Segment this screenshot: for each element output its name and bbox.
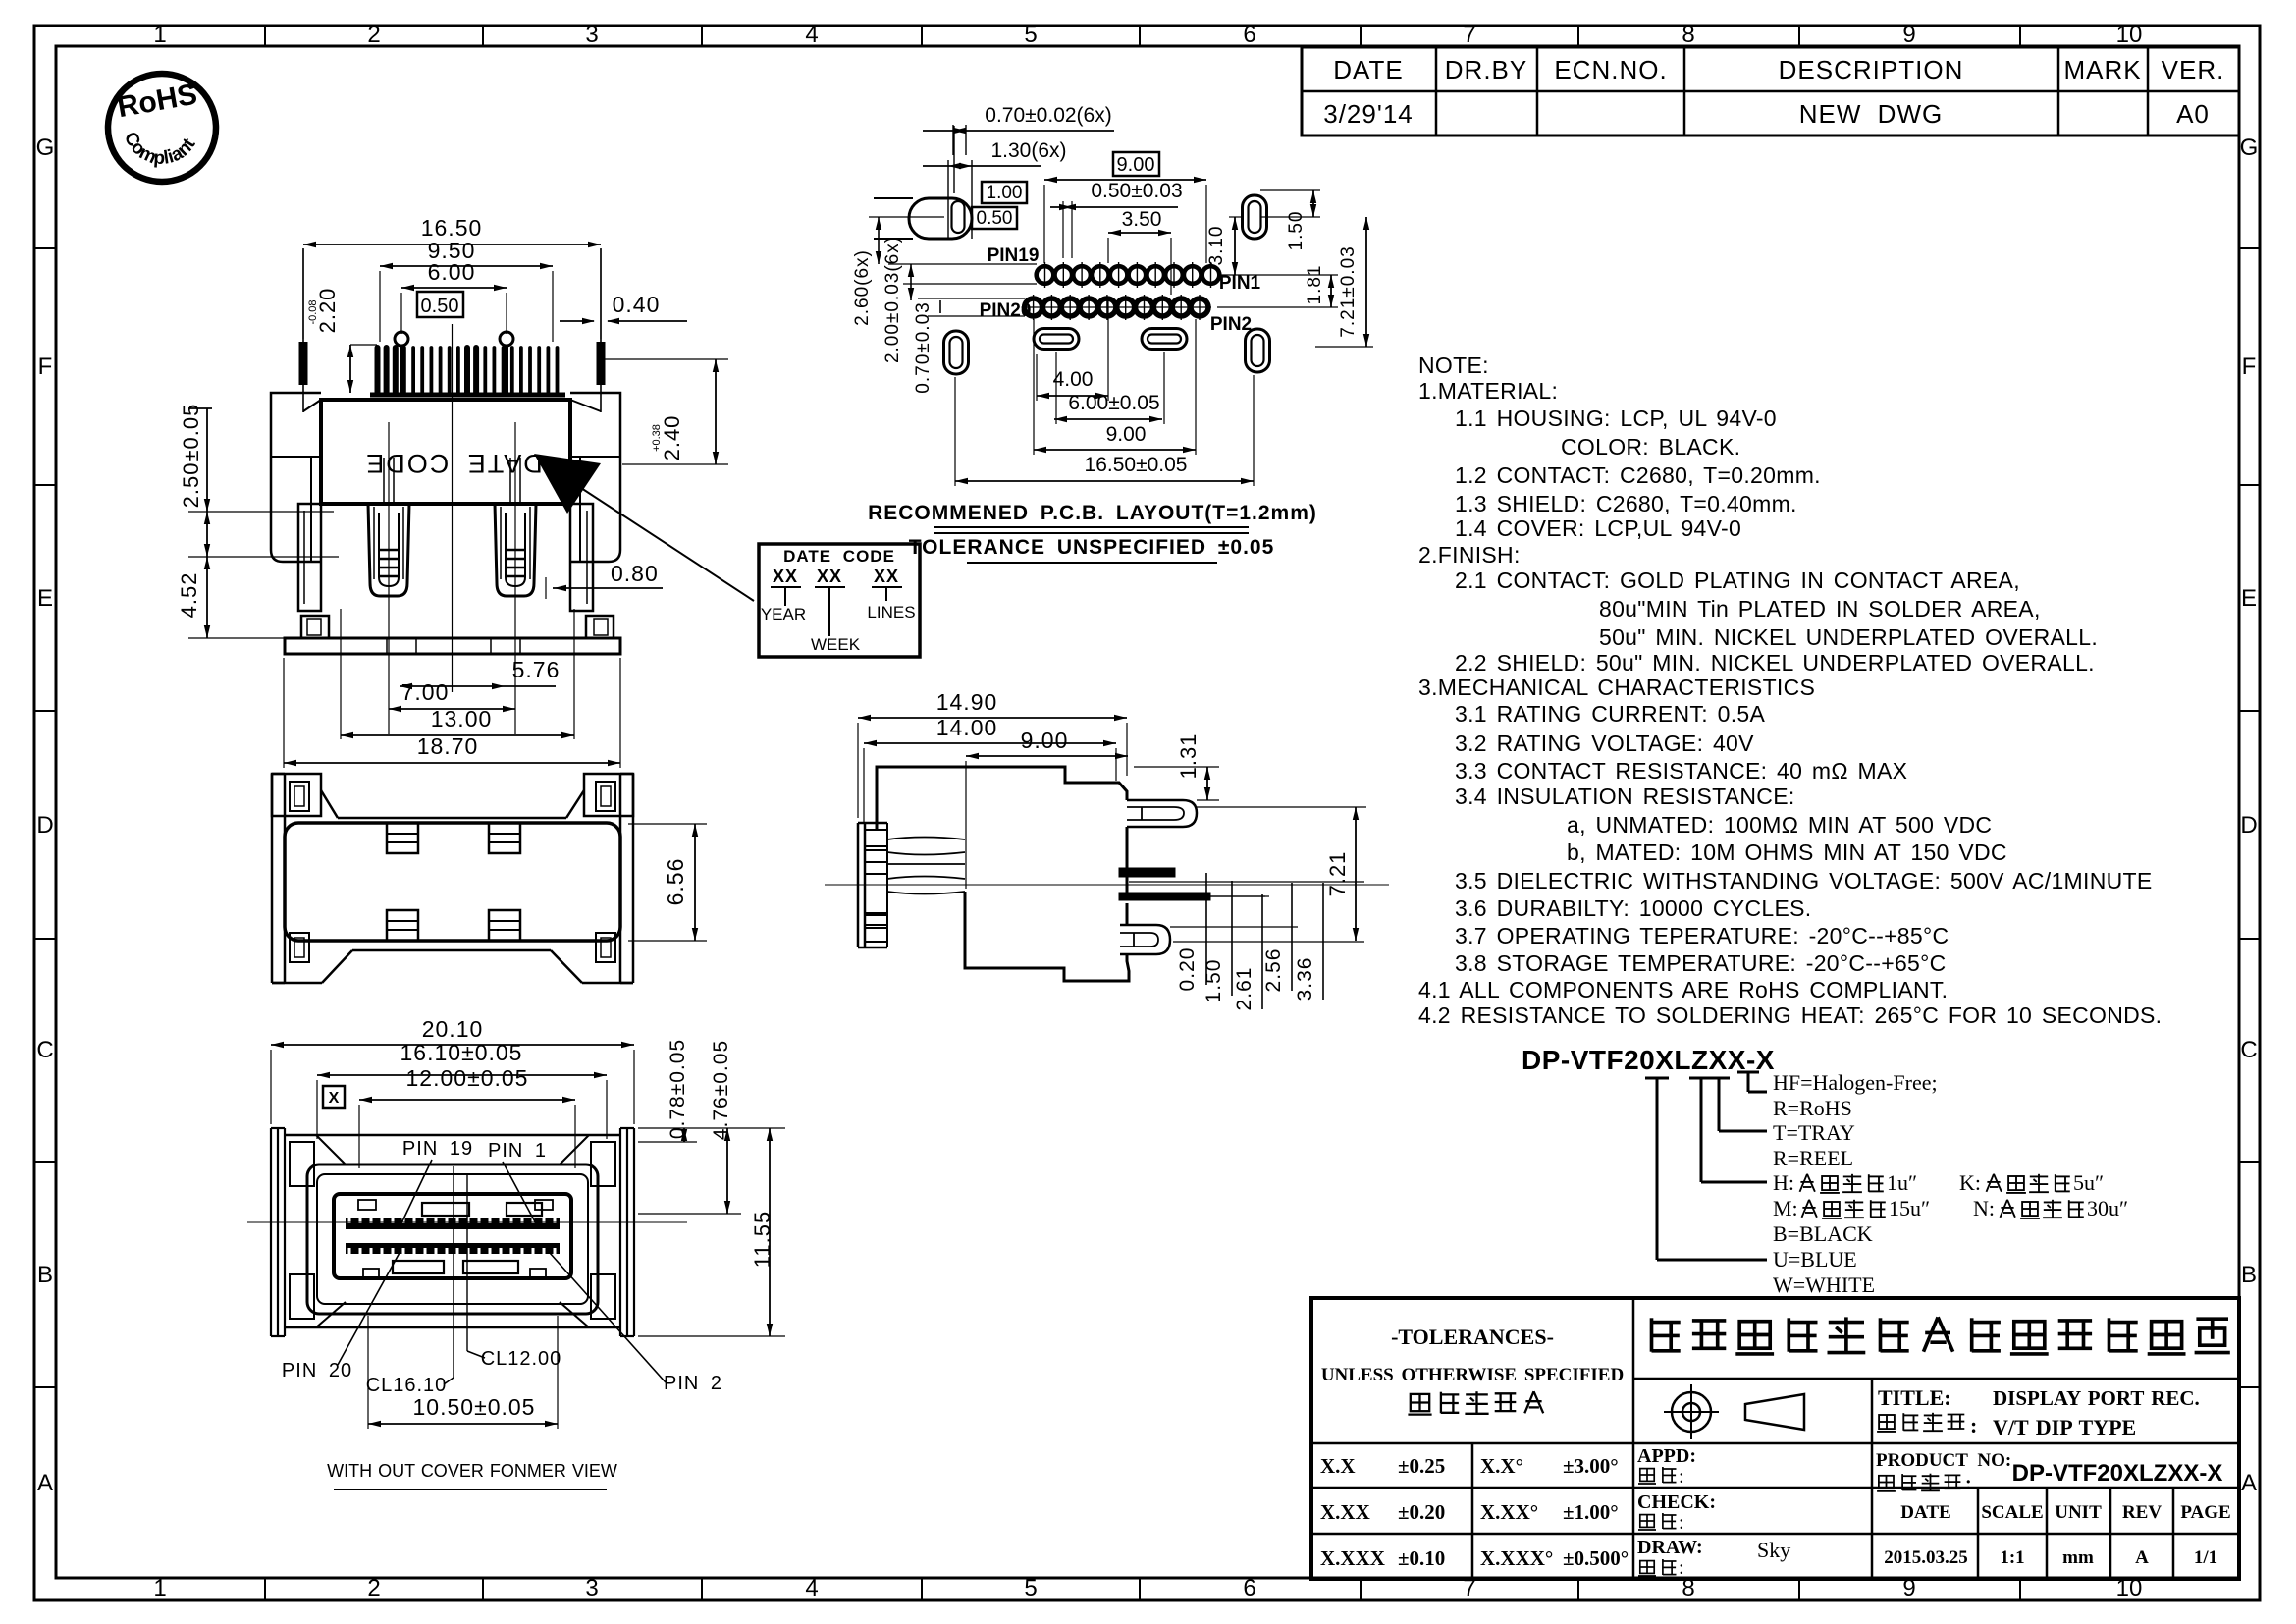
svg-text::: : [1970, 1413, 1978, 1437]
svg-text::: : [1679, 1557, 1685, 1579]
svg-text:ECN.NO.: ECN.NO. [1554, 55, 1667, 84]
svg-text:mm: mm [2062, 1547, 2094, 1568]
svg-text:PRODUCT NO:: PRODUCT NO: [1876, 1450, 2011, 1471]
svg-text:7.21: 7.21 [1325, 851, 1350, 897]
svg-text:F: F [2242, 353, 2257, 380]
svg-text:12.00±0.05: 12.00±0.05 [406, 1065, 529, 1091]
svg-text:7.00: 7.00 [401, 679, 450, 705]
svg-text:UNLESS OTHERWISE SPECIFIED: UNLESS OTHERWISE SPECIFIED [1321, 1365, 1624, 1385]
plating option M/N row [1773, 1196, 2128, 1220]
right wing [570, 393, 620, 562]
svg-text:13.00: 13.00 [431, 706, 493, 731]
svg-text:4.1 ALL COMPONENTS ARE RoH: 4.1 ALL COMPONENTS ARE RoHS COMPLIANT. [1418, 977, 1948, 1002]
svg-text:0.78±0.05: 0.78±0.05 [667, 1039, 689, 1139]
svg-text:PAGE: PAGE [2180, 1502, 2230, 1523]
svg-text:6.00±0.05: 6.00±0.05 [1068, 392, 1159, 414]
mating contacts wavy [887, 838, 965, 840]
svg-text:3/29'14: 3/29'14 [1323, 99, 1414, 129]
svg-text:3.4 INSULATION RESISTANCE:: 3.4 INSULATION RESISTANCE: [1455, 784, 1795, 809]
svg-text:4.00: 4.00 [1053, 368, 1094, 391]
title block [1311, 1298, 2239, 1579]
clip tabs [387, 823, 418, 853]
svg-text:8: 8 [1682, 22, 1694, 48]
svg-text:9.00: 9.00 [1106, 423, 1147, 446]
svg-text:PIN2: PIN2 [1210, 314, 1252, 335]
right foot [586, 616, 614, 638]
svg-text:3.50: 3.50 [1122, 208, 1162, 231]
svg-text:B=BLACK: B=BLACK [1773, 1221, 1873, 1246]
side view [825, 689, 1389, 1010]
svg-text:2.56: 2.56 [1262, 948, 1285, 993]
svg-text:6: 6 [1243, 22, 1255, 48]
svg-text:1.2 CONTACT: C2680, T=0.20m: 1.2 CONTACT: C2680, T=0.20mm. [1455, 462, 1821, 488]
company name (Chinese) [1652, 1317, 2230, 1353]
dim 1.00 boxed [982, 182, 1027, 203]
svg-text:1.31: 1.31 [1176, 733, 1201, 780]
svg-text:A: A [2241, 1470, 2257, 1496]
svg-text:+0.38: +0.38 [651, 424, 663, 452]
svg-text:B: B [37, 1262, 53, 1288]
svg-text:R=RoHS: R=RoHS [1773, 1096, 1852, 1120]
svg-text:W=WHITE: W=WHITE [1773, 1272, 1875, 1297]
svg-text:D: D [36, 812, 53, 839]
svg-text:4: 4 [805, 1575, 818, 1601]
svg-text:2.40: 2.40 [660, 415, 684, 461]
top view shield [272, 774, 707, 983]
svg-text::: : [1965, 1473, 1973, 1494]
svg-text:TITLE:: TITLE: [1878, 1385, 1951, 1410]
recommended PCB layout [852, 104, 1373, 563]
svg-text:C: C [36, 1037, 53, 1063]
svg-text:K:: K: [1959, 1170, 1981, 1195]
svg-text:DR.BY: DR.BY [1445, 55, 1527, 84]
svg-text:CL12.00: CL12.00 [481, 1348, 562, 1370]
svg-text:DP-VTF20XLZXX-X: DP-VTF20XLZXX-X [2012, 1460, 2223, 1487]
svg-text:±0.25: ±0.25 [1398, 1454, 1445, 1478]
svg-text:X.XX°: X.XX° [1480, 1500, 1538, 1524]
svg-text:9: 9 [1902, 22, 1915, 48]
svg-text:X.XXX: X.XXX [1320, 1546, 1385, 1570]
svg-text:A: A [2135, 1547, 2149, 1568]
svg-text:UNIT: UNIT [2055, 1502, 2102, 1523]
svg-text:6.00: 6.00 [428, 259, 476, 285]
svg-text:X.X: X.X [1320, 1454, 1356, 1478]
svg-text:-TOLERANCES-: -TOLERANCES- [1391, 1325, 1554, 1349]
svg-text:±3.00°: ±3.00° [1563, 1454, 1619, 1478]
svg-text:E: E [2241, 585, 2257, 612]
dim 0.50 boxed [417, 292, 463, 317]
svg-text:7: 7 [1463, 22, 1475, 48]
svg-text:1.4 COVER: LCP,UL 94V-0: 1.4 COVER: LCP,UL 94V-0 [1455, 515, 1741, 541]
svg-text:1/1: 1/1 [2194, 1547, 2217, 1568]
svg-text:3: 3 [585, 22, 598, 48]
contact fins [378, 348, 558, 394]
svg-text:6: 6 [1243, 1575, 1255, 1601]
svg-text:3.10: 3.10 [1206, 226, 1227, 266]
CL12.00 line [466, 1174, 468, 1351]
svg-text:2: 2 [367, 1575, 380, 1601]
left wing [271, 393, 321, 562]
side plates [270, 1128, 272, 1336]
tongue [334, 1194, 571, 1278]
svg-text:M:: M: [1773, 1196, 1798, 1220]
svg-text:10: 10 [2116, 22, 2143, 48]
svg-text:COLOR: BLACK.: COLOR: BLACK. [1561, 434, 1740, 460]
projection symbol circle [1664, 1384, 1719, 1439]
svg-text:C: C [2240, 1037, 2257, 1063]
svg-text:B: B [2241, 1262, 2257, 1288]
svg-text:DRAW:: DRAW: [1637, 1537, 1703, 1558]
svg-text:2.1 CONTACT: GOLD PLATING: 2.1 CONTACT: GOLD PLATING IN CONTACT ARE… [1455, 568, 2020, 593]
svg-text:WEEK: WEEK [811, 635, 861, 654]
breakdown tree lines [1645, 1077, 1669, 1080]
svg-text:3.MECHANICAL CHARACTERISTICS: 3.MECHANICAL CHARACTERISTICS [1418, 675, 1815, 700]
svg-text:1.30(6x): 1.30(6x) [990, 139, 1066, 162]
svg-text:G: G [36, 135, 55, 161]
centerline [825, 884, 1389, 886]
svg-text:3.5 DIELECTRIC WITHSTANDING: 3.5 DIELECTRIC WITHSTANDING VOLTAGE: 500… [1455, 868, 2153, 893]
svg-text:5: 5 [1024, 1575, 1037, 1601]
svg-text:F: F [38, 353, 53, 380]
corner tab TR [584, 774, 633, 816]
top DIP leg [1127, 800, 1197, 827]
svg-text:CL16.10: CL16.10 [366, 1375, 448, 1396]
pin holes row 1 [1037, 262, 1220, 288]
svg-text:1.1 HOUSING: LCP, UL 94V-0: 1.1 HOUSING: LCP, UL 94V-0 [1455, 406, 1777, 431]
left foot [301, 616, 329, 638]
svg-text:4.2 RESISTANCE TO SOLDERING: 4.2 RESISTANCE TO SOLDERING HEAT: 265°C … [1418, 1002, 2162, 1028]
shield body [321, 400, 570, 504]
left side plate [271, 774, 274, 983]
svg-text:5.76: 5.76 [512, 657, 561, 682]
projection symbol cone [1745, 1394, 1804, 1430]
CL16.10 line [453, 1166, 454, 1378]
svg-text:YEAR: YEAR [761, 605, 806, 623]
svg-text:SCALE: SCALE [1981, 1502, 2043, 1523]
svg-text:0.50: 0.50 [421, 296, 459, 317]
mini table [1884, 1502, 2230, 1568]
top SMT tail [1119, 868, 1175, 877]
left lower plate [298, 504, 321, 611]
svg-text:30u″: 30u″ [2087, 1196, 2128, 1220]
dim 0.50 boxed [972, 207, 1017, 229]
svg-text:XX: XX [773, 567, 798, 586]
shield main body [285, 823, 620, 941]
svg-text:0.80: 0.80 [611, 561, 659, 586]
svg-text:APPD:: APPD: [1637, 1445, 1696, 1467]
svg-text:H:: H: [1773, 1170, 1794, 1195]
svg-text:DATE: DATE [1333, 55, 1403, 84]
svg-text:HF=Halogen-Free;: HF=Halogen-Free; [1773, 1070, 1938, 1095]
notes text [1418, 352, 2162, 1028]
approval rows [1637, 1445, 1790, 1579]
svg-text:3.7 OPERATING TEPERATURE: -: 3.7 OPERATING TEPERATURE: -20°C--+85°C [1455, 923, 1949, 948]
svg-text:PIN 1: PIN 1 [488, 1140, 547, 1162]
front view connector housing [177, 215, 754, 768]
svg-text:VER.: VER. [2162, 55, 2225, 84]
date code legend box [759, 544, 920, 657]
svg-text:5u″: 5u″ [2073, 1170, 2104, 1195]
svg-text:X: X [329, 1090, 340, 1107]
svg-text:6.56: 6.56 [663, 858, 688, 906]
svg-text:X.XXX°: X.XXX° [1480, 1546, 1553, 1570]
svg-text::: : [1679, 1466, 1685, 1488]
plating option H/K row [1773, 1170, 2104, 1195]
svg-text:LINES: LINES [867, 603, 915, 622]
tolerances header [1321, 1325, 1624, 1415]
cavity outline [307, 1164, 598, 1314]
svg-text:3.6 DURABILTY: 10000 CYCLES: 3.6 DURABILTY: 10000 CYCLES. [1455, 895, 1811, 921]
svg-text:X.XX: X.XX [1320, 1500, 1370, 1524]
svg-text:WITH OUT COVER FONMER VIEW: WITH OUT COVER FONMER VIEW [327, 1461, 617, 1481]
svg-text:MARK: MARK [2063, 55, 2141, 84]
top edge outline [321, 790, 338, 818]
svg-text:±0.500°: ±0.500° [1563, 1546, 1629, 1570]
svg-text:b, MATED: 10M OHMS MIN: b, MATED: 10M OHMS MIN AT 150 VDC [1567, 839, 2007, 865]
tolerance values [1320, 1454, 1629, 1570]
svg-text:0.70±0.02(6x): 0.70±0.02(6x) [985, 104, 1111, 127]
part number breakdown [1522, 1045, 1938, 1260]
bottom edge outline [352, 949, 551, 952]
pin leg left [368, 504, 409, 596]
bottom tab BR [596, 933, 615, 962]
svg-text:11.55: 11.55 [750, 1211, 774, 1268]
svg-text:1.81: 1.81 [1305, 265, 1325, 305]
slot oval bottom-right [1246, 329, 1270, 372]
bottom view without cover [247, 1016, 785, 1489]
svg-text:2: 2 [367, 22, 380, 48]
svg-text:U=BLUE: U=BLUE [1773, 1247, 1857, 1272]
svg-text:PIN19: PIN19 [988, 245, 1040, 266]
RoHS compliant logo [108, 74, 216, 182]
svg-text:±0.20: ±0.20 [1398, 1500, 1445, 1524]
svg-text:D: D [2240, 812, 2257, 839]
svg-text:1.MATERIAL:: 1.MATERIAL: [1418, 378, 1558, 404]
svg-text:4: 4 [805, 22, 818, 48]
slot oval mid-right [1142, 329, 1187, 350]
slot oval top-right [1243, 195, 1267, 239]
contact tails in body [383, 458, 385, 504]
bottom edge [285, 1326, 620, 1329]
svg-text:DP-VTF20XLZXX-X: DP-VTF20XLZXX-X [1522, 1045, 1775, 1075]
svg-text:2.61: 2.61 [1233, 967, 1255, 1011]
svg-text:DESCRIPTION: DESCRIPTION [1779, 55, 1964, 84]
svg-text:0.50: 0.50 [977, 208, 1013, 229]
svg-text:XX: XX [874, 567, 899, 586]
centerline [247, 1221, 687, 1223]
title text [1877, 1385, 2200, 1439]
svg-text:N:: N: [1973, 1196, 1995, 1220]
right side plate [619, 774, 622, 983]
svg-text:1.3 SHIELD: C2680, T=0.40mm: 1.3 SHIELD: C2680, T=0.40mm. [1455, 491, 1797, 516]
DATE CODE marking [364, 449, 543, 478]
svg-text:R=REEL: R=REEL [1773, 1146, 1853, 1170]
pin leg right [495, 504, 536, 596]
svg-text:T=TRAY: T=TRAY [1773, 1120, 1855, 1145]
svg-text:0.40: 0.40 [613, 292, 661, 317]
svg-text:3: 3 [585, 1575, 598, 1601]
svg-text:16.10±0.05: 16.10±0.05 [400, 1040, 523, 1065]
side body outline [877, 767, 1127, 830]
svg-text:G: G [2240, 135, 2259, 161]
svg-text:3.2 RATING VOLTAGE: 40V: 3.2 RATING VOLTAGE: 40V [1455, 731, 1754, 756]
svg-text:1: 1 [153, 22, 166, 48]
svg-text:PIN20: PIN20 [980, 300, 1032, 321]
svg-text:DISPLAY PORT REC.: DISPLAY PORT REC. [1993, 1386, 2200, 1410]
svg-text:NOTE:: NOTE: [1418, 352, 1489, 378]
right lower plate [570, 504, 593, 611]
top edge [285, 1134, 620, 1137]
corner tab TL [272, 774, 321, 816]
svg-text:0.70±0.03: 0.70±0.03 [913, 301, 934, 393]
svg-text:-0.08: -0.08 [307, 299, 319, 324]
svg-text:15u″: 15u″ [1889, 1196, 1930, 1220]
svg-text:4.52: 4.52 [177, 572, 201, 619]
svg-text:DATE: DATE [1900, 1502, 1950, 1523]
svg-text:3.36: 3.36 [1294, 957, 1316, 1001]
svg-text:±0.10: ±0.10 [1398, 1546, 1445, 1570]
svg-text:E: E [37, 585, 53, 612]
svg-text:20.10: 20.10 [422, 1016, 484, 1042]
svg-text:10.50±0.05: 10.50±0.05 [413, 1394, 536, 1420]
bottom SMT tail [1119, 893, 1210, 900]
svg-text:7.21±0.03: 7.21±0.03 [1338, 245, 1359, 337]
pin row upper [346, 1218, 560, 1229]
svg-text:X.X°: X.X° [1480, 1454, 1523, 1478]
svg-text:80u"MIN Tin PLATED IN SOLD: 80u"MIN Tin PLATED IN SOLDER AREA, [1599, 596, 2041, 622]
svg-text:9.00: 9.00 [1117, 154, 1155, 176]
datum X box [323, 1086, 345, 1108]
svg-text:2.50±0.05: 2.50±0.05 [179, 404, 203, 509]
svg-text:5: 5 [1024, 22, 1037, 48]
svg-text:0.20: 0.20 [1176, 947, 1199, 992]
svg-text::: : [1679, 1512, 1685, 1534]
svg-text:2.60(6x): 2.60(6x) [852, 249, 873, 326]
svg-text:4.76±0.05: 4.76±0.05 [710, 1040, 732, 1140]
svg-text:±1.00°: ±1.00° [1563, 1500, 1619, 1524]
svg-text:TOLERANCE UNSPECIFIED ±0.05: TOLERANCE UNSPECIFIED ±0.05 [909, 536, 1275, 559]
svg-text:14.00: 14.00 [936, 715, 998, 740]
slot oval bottom-left [944, 331, 969, 374]
slot top-left (bent) [909, 198, 972, 239]
svg-text:CHECK:: CHECK: [1637, 1491, 1716, 1513]
dim 9.00 boxed top [1113, 152, 1159, 176]
svg-text:NEW DWG: NEW DWG [1799, 99, 1943, 129]
svg-text:2.2 SHIELD: 50u" MIN. NICK: 2.2 SHIELD: 50u" MIN. NICKEL UNDERPLATED… [1455, 650, 2095, 676]
svg-text:XX: XX [817, 567, 842, 586]
svg-text:3.1 RATING CURRENT: 0.5A: 3.1 RATING CURRENT: 0.5A [1455, 701, 1765, 727]
svg-text:REV: REV [2122, 1502, 2162, 1523]
svg-text:18.70: 18.70 [417, 733, 479, 759]
centerlines [452, 324, 454, 692]
ladder dims 0.20-3.36 [1205, 873, 1207, 985]
svg-text:Sky: Sky [1757, 1538, 1790, 1562]
leader arrow to date code box [534, 454, 601, 514]
color options [1773, 1221, 1875, 1297]
svg-text:V/T DIP TYPE: V/T DIP TYPE [1993, 1415, 2136, 1439]
svg-text:PIN 2: PIN 2 [664, 1373, 722, 1394]
slot oval mid-left [1034, 329, 1079, 350]
svg-text:a, UNMATED: 100MΩ MIN AT: a, UNMATED: 100MΩ MIN AT 500 VDC [1567, 812, 1992, 838]
right EMI finger [600, 248, 602, 412]
base plate [285, 638, 620, 654]
svg-text:16.50±0.05: 16.50±0.05 [1085, 454, 1188, 476]
svg-text:PIN 19: PIN 19 [402, 1138, 473, 1160]
svg-text:14.90: 14.90 [936, 689, 998, 715]
revision table [1302, 47, 2239, 135]
svg-text:1: 1 [153, 1575, 166, 1601]
pin row lower [346, 1243, 560, 1254]
bottom tab BL [290, 933, 309, 962]
svg-text:2.FINISH:: 2.FINISH: [1418, 542, 1521, 568]
svg-text:DATE CODE: DATE CODE [783, 547, 895, 566]
svg-text:50u" MIN. NICKEL UNDERPLATE: 50u" MIN. NICKEL UNDERPLATED OVERALL. [1599, 624, 2098, 650]
svg-text:PIN 20: PIN 20 [282, 1360, 352, 1381]
svg-text:2.00±0.03(6x): 2.00±0.03(6x) [882, 236, 903, 363]
svg-text:9.00: 9.00 [1021, 728, 1069, 753]
corner tabs [290, 1142, 314, 1186]
svg-text:1.00: 1.00 [987, 183, 1023, 203]
svg-text:A0: A0 [2176, 99, 2210, 129]
svg-text:1.50: 1.50 [1202, 959, 1225, 1003]
front flange stack [857, 823, 860, 947]
svg-text:RECOMMENED P.C.B. LAYOUT(T=1.2: RECOMMENED P.C.B. LAYOUT(T=1.2mm) [868, 502, 1317, 524]
svg-text:PIN1: PIN1 [1219, 273, 1261, 294]
latch windows [422, 1203, 469, 1216]
svg-text:1:1: 1:1 [2000, 1547, 2024, 1568]
svg-text:2015.03.25: 2015.03.25 [1884, 1547, 1968, 1568]
svg-text:3.3 CONTACT RESISTANCE: 40: 3.3 CONTACT RESISTANCE: 40 mΩ MAX [1455, 758, 1907, 784]
pin holes row 2 [1022, 295, 1211, 320]
leader top-left [953, 126, 955, 193]
svg-text:0.50±0.03: 0.50±0.03 [1091, 180, 1182, 202]
bottom DIP leg [1120, 925, 1170, 954]
svg-text:3.8 STORAGE TEMPERATURE: -2: 3.8 STORAGE TEMPERATURE: -20°C--+65°C [1455, 950, 1947, 976]
left EMI finger [302, 248, 304, 412]
svg-text:A: A [37, 1470, 53, 1496]
guide posts [395, 332, 408, 346]
svg-text:1u″: 1u″ [1887, 1170, 1917, 1195]
product no [1876, 1450, 2222, 1494]
